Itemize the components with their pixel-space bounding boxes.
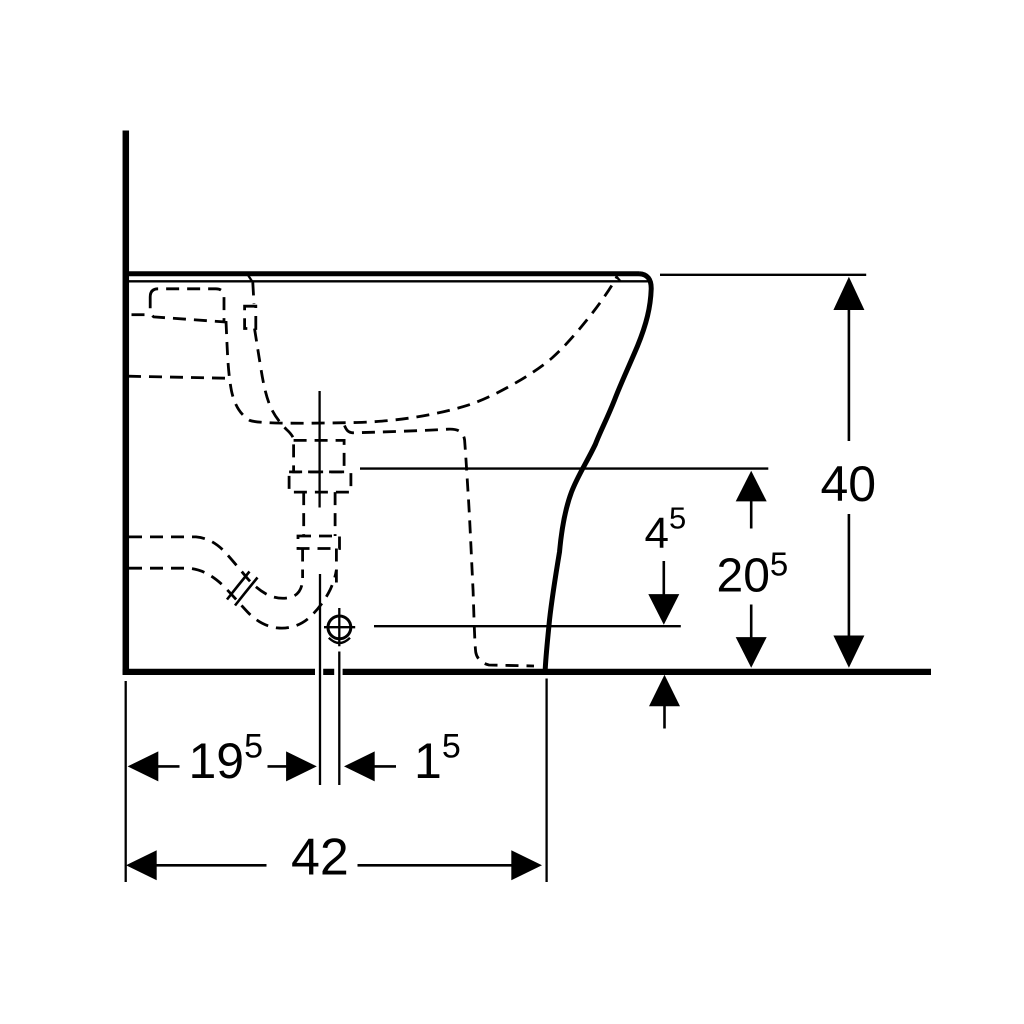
dimension 4.5 down arrow [648, 594, 679, 625]
dashed hidden plumbing [128, 277, 617, 667]
seat underside line [129, 280, 649, 282]
dimension 1.5 tail [374, 765, 397, 768]
drain bend outer wall [129, 568, 336, 628]
hole reference line [374, 625, 681, 627]
extension line wall bottom [125, 681, 127, 882]
dimension 19.5 left arrow [128, 751, 159, 781]
dimension 20.5 top arrow [736, 471, 767, 502]
dimension 42 right arrow [511, 850, 542, 880]
floor [123, 669, 931, 675]
drain bend inner wall [129, 537, 303, 598]
dimension 1.5 left arrow [344, 751, 375, 781]
toilet back profile [545, 274, 651, 670]
inner channel stub from seat [253, 283, 254, 305]
dimension 4.5 below-floor up arrow [649, 675, 680, 707]
dimension 40 lower tail [848, 514, 851, 639]
connector box [245, 306, 256, 328]
extension line 42 right [545, 679, 547, 883]
outlet centerline upper [318, 391, 320, 508]
outlet centerline lower / extension [319, 574, 321, 785]
fixing hole centerline [338, 608, 340, 785]
dimension 42 left arrow [126, 850, 157, 880]
outlet reference line [360, 467, 768, 469]
wall [123, 131, 130, 675]
seat hinge tick [247, 273, 253, 282]
outlet socket box 2 [289, 472, 351, 492]
dimension 40 top arrow [833, 277, 864, 310]
cistern flush valve box [150, 289, 224, 322]
dimension 40 bottom arrow [833, 636, 864, 668]
dimension 20.5 lower tail [750, 605, 753, 639]
flush channel inner wall [255, 329, 295, 441]
flush channel outer wall and bowl bottom curve [226, 277, 617, 424]
bowl outlet funnel right wall [345, 426, 535, 667]
outlet pipe flange [298, 536, 340, 549]
svg-text:42: 42 [291, 829, 349, 887]
dimension 20.5 bottom arrow [736, 637, 767, 668]
dimension 20.5 upper tail [750, 500, 753, 529]
toilet rim top line [123, 271, 639, 276]
outlet pipe lower sides [303, 549, 337, 585]
wall to channel line [128, 376, 226, 378]
dimension 42 left tail [156, 864, 267, 867]
dimension 40 upper tail [848, 306, 851, 441]
fixing hole crosshair horizontal [324, 626, 355, 628]
outlet socket box 1 [294, 440, 345, 472]
bowl-rim junction tick [616, 276, 621, 281]
dimension 19.5 left tail [157, 765, 180, 768]
svg-text:40: 40 [821, 456, 877, 512]
pipe joint ticks [227, 572, 258, 606]
fixing hole lower arc [329, 638, 350, 643]
dimension 19.5 right arrow [286, 751, 317, 781]
dimension 4.5 tail [662, 561, 665, 596]
dimension 42 right tail [358, 864, 512, 867]
dimension 4.5 below-floor tail [663, 705, 666, 729]
outlet pipe upper sides [304, 492, 335, 536]
flush inlet dash at wall [132, 313, 150, 316]
dimension 19.5 right tail [268, 765, 289, 768]
fixing hole symbol [328, 616, 351, 639]
extension line top of bowl (40) [660, 274, 866, 276]
